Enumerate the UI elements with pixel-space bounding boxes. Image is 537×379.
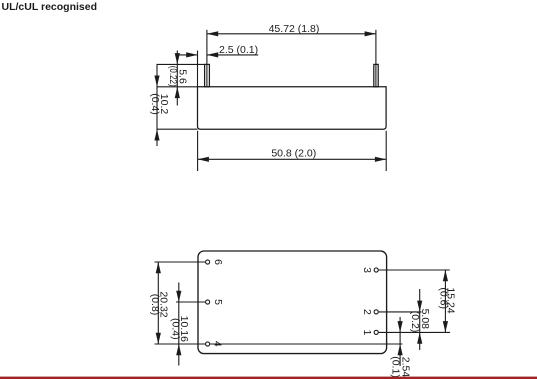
- svg-text:(0.8): (0.8): [149, 294, 161, 316]
- arrowhead 2.54 up at pin4 row: [398, 344, 403, 355]
- svg-text:UL/cUL recognised: UL/cUL recognised: [2, 1, 98, 13]
- side view left pin: [205, 64, 210, 86]
- svg-text:2.5 (0.1): 2.5 (0.1): [219, 44, 258, 56]
- dim 2.54 line continuous: [399, 317, 401, 366]
- dim 5.08 line continuous: [419, 289, 421, 350]
- arrowhead 10.16 down at pin5: [176, 291, 181, 302]
- arrowhead 45.72 left: [207, 31, 218, 36]
- arrowhead 20.32 up: [156, 262, 161, 273]
- dimension line 2.5 left segment: [177, 54, 197, 56]
- pin 3 extension line: [379, 269, 450, 271]
- dimension line 45.72: [207, 33, 376, 35]
- svg-text:4: 4: [212, 341, 224, 347]
- arrowhead 5.08 up at pin1: [417, 332, 422, 343]
- svg-text:6: 6: [212, 259, 224, 265]
- svg-text:3: 3: [361, 267, 373, 273]
- pin 4 pad circle: [206, 342, 210, 346]
- svg-text:(0.22): (0.22): [167, 66, 179, 87]
- pin 4 extension line left: [155, 343, 206, 345]
- dim 10.2 line with outside arrow tails: [156, 64, 158, 146]
- pin 1 pad circle: [374, 330, 378, 334]
- pin 3 pad circle: [374, 268, 378, 272]
- svg-text:(0.4): (0.4): [170, 318, 182, 340]
- arrowhead 20.32 down: [156, 333, 161, 344]
- svg-text:45.72 (1.8): 45.72 (1.8): [269, 23, 320, 35]
- pin 6 pad circle: [206, 260, 210, 264]
- arrowhead 50.8 left: [198, 157, 209, 162]
- extension line body left edge top: [197, 51, 199, 87]
- pin 4 row line across body to right: [210, 343, 403, 345]
- arrowhead 15.24 up: [443, 270, 448, 281]
- arrowhead 5.6 down at pin top: [175, 53, 180, 64]
- pin 5 pad circle: [206, 300, 210, 304]
- arrowhead 10.2 down at body top: [154, 76, 159, 87]
- arrowhead 2.5 pointing left at pin centre: [207, 52, 218, 57]
- arrowhead 45.72 right: [365, 31, 376, 36]
- arrowhead 15.24 down: [443, 321, 448, 332]
- svg-text:(0.2): (0.2): [409, 311, 421, 333]
- extension line pin top level: [157, 63, 205, 65]
- side view body outline: [198, 87, 387, 129]
- svg-text:(0.6): (0.6): [438, 287, 450, 309]
- arrowhead 50.8 right: [375, 157, 386, 162]
- arrowhead 10.2 up at body bottom: [154, 129, 159, 140]
- svg-text:50.8 (2.0): 50.8 (2.0): [271, 148, 316, 160]
- dimension line 2.5 right segment with text underline: [207, 54, 258, 56]
- extension line right pin centre (45.72): [375, 30, 377, 87]
- pin 2 extension line: [379, 311, 422, 313]
- bottom view body outline: [198, 251, 387, 354]
- pin 2 pad circle: [374, 310, 378, 314]
- svg-text:2: 2: [361, 309, 373, 315]
- svg-text:5: 5: [212, 299, 224, 305]
- dim 15.24 line: [444, 270, 446, 332]
- red footer rule: [0, 377, 537, 379]
- side view right pin: [374, 64, 378, 86]
- arrowhead 10.16 up at pin4: [176, 344, 181, 355]
- dimension line 50.8: [198, 158, 387, 160]
- extension line body left edge bottom (50.8): [197, 131, 199, 171]
- extension line body right edge bottom (50.8): [385, 131, 387, 171]
- extension line body bottom to left: [157, 128, 198, 130]
- dim 10.16 line continuous: [178, 283, 180, 366]
- dim 5.6 line continuous: [176, 51, 178, 106]
- svg-text:(0.4): (0.4): [149, 93, 161, 115]
- arrowhead 5.08 down at pin2: [417, 301, 422, 312]
- pin 5 extension line: [176, 301, 205, 303]
- dim 20.32 line: [157, 262, 159, 344]
- arrowhead 2.54 down at pin1: [398, 321, 403, 332]
- extension line left pin centre (45.72): [206, 30, 208, 87]
- svg-text:(0.1): (0.1): [390, 356, 402, 378]
- arrowhead 5.6 up at body top: [175, 87, 180, 98]
- arrowhead 2.5 pointing right at body edge: [186, 52, 197, 57]
- pin 1 extension line: [379, 331, 451, 333]
- svg-text:1: 1: [361, 329, 373, 335]
- extension line body top to left: [157, 86, 198, 88]
- pin 6 extension line: [155, 261, 206, 263]
